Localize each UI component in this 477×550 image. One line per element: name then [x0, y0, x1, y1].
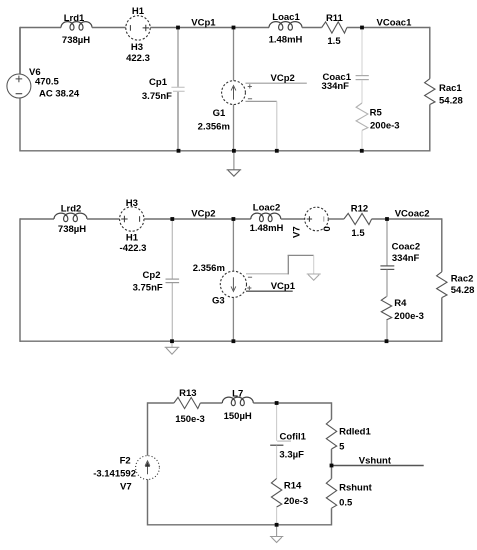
svg-text:Lrd2: Lrd2 — [61, 204, 82, 215]
voltage source V6 470.5 AC 38.24 — [7, 28, 80, 100]
svg-text:200e-3: 200e-3 — [370, 121, 400, 132]
inductor Lrd2 — [54, 204, 87, 235]
node VCoac2 label — [395, 209, 430, 220]
resistor R14 20e-3 — [271, 479, 308, 525]
svg-text:Vshunt: Vshunt — [359, 456, 392, 467]
ground below G1 — [227, 151, 242, 176]
svg-text:1.48mH: 1.48mH — [269, 35, 303, 46]
svg-text:Lrd1: Lrd1 — [64, 13, 85, 24]
svg-text:H1: H1 — [126, 233, 139, 244]
resistor R12 — [344, 203, 372, 239]
svg-text:334nF: 334nF — [322, 81, 350, 92]
voltage source V7 0 — [292, 207, 334, 238]
svg-text:VCp1: VCp1 — [271, 281, 296, 292]
svg-text:422.3: 422.3 — [126, 53, 150, 64]
controlled source H1 (CCVS, gain H3 422.3) — [126, 6, 150, 64]
inductor Loac2 — [250, 203, 284, 235]
wire right edge down to Rac2 — [441, 218, 443, 271]
svg-text:Cp2: Cp2 — [143, 270, 161, 281]
capacitor Cp2 3.75nF branch — [133, 219, 180, 341]
resistor R11 — [322, 13, 347, 47]
wire Rshunt to bottom-right corner — [331, 508, 333, 525]
wire V6 to bottom-left corner — [19, 98, 21, 151]
controlled source H3 (gain H1 -422.3) — [120, 198, 147, 254]
svg-text:Rshunt: Rshunt — [339, 483, 373, 494]
wire top-left corner — [20, 27, 61, 74]
svg-text:-3.141592: -3.141592 — [93, 468, 136, 479]
svg-text:VCoac2: VCoac2 — [395, 209, 430, 220]
inductor L7 — [222, 388, 253, 422]
wire R13 to L7 — [200, 402, 222, 404]
resistor R13 — [174, 388, 205, 425]
wire Lrd2 to H3 — [87, 218, 120, 220]
junction dots bottom circuit — [275, 401, 334, 527]
svg-text:G3: G3 — [212, 295, 225, 306]
svg-text:Loac2: Loac2 — [253, 203, 280, 214]
svg-text:54.28: 54.28 — [451, 285, 475, 296]
svg-text:3.75nF: 3.75nF — [133, 283, 163, 294]
svg-text:200e-3: 200e-3 — [394, 311, 424, 322]
svg-text:Cp1: Cp1 — [149, 77, 168, 88]
svg-text:5: 5 — [339, 442, 345, 453]
wire Rac2 to bottom wire — [441, 298, 443, 342]
svg-text:2.356m: 2.356m — [193, 263, 225, 274]
resistor Rac2 54.28 — [437, 272, 475, 298]
junction dots middle circuit — [170, 217, 389, 343]
svg-text:0: 0 — [322, 226, 333, 231]
inductor Loac1 — [269, 12, 303, 46]
G1 control + wire, node VCp2 — [246, 73, 307, 88]
svg-text:1.5: 1.5 — [327, 36, 341, 47]
svg-text:-422.3: -422.3 — [120, 243, 147, 254]
G3 control - wire up to floating ground — [246, 255, 314, 277]
svg-text:Cofil1: Cofil1 — [280, 431, 307, 442]
resistor Rac1 54.28 — [425, 79, 463, 107]
svg-text:VCp1: VCp1 — [191, 17, 216, 28]
resistor Rdled1 5 — [326, 419, 371, 452]
svg-text:AC 38.24: AC 38.24 — [39, 88, 80, 99]
wire Loac1 to R11 — [302, 27, 322, 29]
svg-text:H1: H1 — [132, 6, 145, 17]
svg-text:H3: H3 — [126, 198, 138, 209]
svg-text:Rac1: Rac1 — [439, 83, 462, 94]
wire L7 to node and right corner — [253, 402, 331, 404]
svg-text:F2: F2 — [120, 455, 131, 466]
current source F2 -3.141592 V7 — [93, 455, 159, 525]
wire R11 to right corner, node VCoac1 — [347, 27, 430, 29]
capacitor Cp1 3.75nF branch — [142, 28, 185, 151]
bottom wire of bottom circuit — [148, 524, 332, 526]
svg-text:Coac2: Coac2 — [392, 242, 421, 253]
wire V7 to R12 — [328, 218, 344, 220]
node VCoac1 label — [377, 17, 413, 28]
ground below bottom circuit — [270, 525, 284, 543]
svg-text:Rdled1: Rdled1 — [339, 427, 371, 438]
bottom wire of top circuit — [20, 150, 430, 152]
svg-text:H3: H3 — [131, 42, 143, 53]
svg-text:3.3µF: 3.3µF — [279, 449, 304, 460]
controlled source G3 branch (VCCS 2.356m) — [193, 219, 247, 341]
svg-text:V7: V7 — [120, 482, 132, 493]
inductor Lrd1 — [61, 13, 92, 46]
ground below Cp2 — [165, 341, 180, 354]
svg-text:R12: R12 — [351, 203, 368, 214]
capacitor Coac2 334nF + resistor R4 branch — [380, 219, 423, 341]
floating ground symbol (G3 - reference) — [307, 274, 321, 280]
G3 control + wire, node VCp1 — [246, 281, 296, 292]
svg-text:VCp2: VCp2 — [191, 209, 215, 220]
svg-text:2.356m: 2.356m — [198, 121, 230, 132]
svg-text:3.75nF: 3.75nF — [142, 91, 172, 102]
capacitor Cofil1 3.3µF branch — [270, 403, 306, 479]
svg-text:G1: G1 — [213, 108, 226, 119]
bottom wire of middle circuit — [20, 340, 442, 342]
svg-text:0.5: 0.5 — [339, 498, 353, 509]
svg-text:334nF: 334nF — [392, 253, 420, 264]
wire R12 to node VCoac2 and right corner — [372, 218, 442, 220]
svg-text:R5: R5 — [370, 107, 383, 118]
svg-text:V7: V7 — [292, 226, 303, 238]
svg-text:1.5: 1.5 — [351, 228, 365, 239]
svg-text:150e-3: 150e-3 — [175, 414, 205, 425]
svg-text:R13: R13 — [179, 388, 196, 399]
node VCp1 label — [191, 17, 216, 28]
node VCp2 label — [191, 209, 215, 220]
svg-text:VCoac1: VCoac1 — [377, 17, 413, 28]
svg-text:150µH: 150µH — [224, 411, 252, 422]
svg-text:R14: R14 — [284, 481, 302, 492]
svg-text:R11: R11 — [326, 13, 344, 24]
svg-text:L7: L7 — [232, 388, 243, 399]
svg-text:R4: R4 — [394, 298, 407, 309]
svg-text:20e-3: 20e-3 — [284, 496, 308, 507]
svg-text:Loac1: Loac1 — [272, 12, 300, 23]
svg-text:Rac2: Rac2 — [451, 273, 474, 284]
resistor Rshunt 0.5 — [326, 479, 372, 509]
wire right edge down to Rdled1 — [331, 402, 333, 419]
svg-text:1.48mH: 1.48mH — [250, 223, 284, 234]
capacitor Coac1 334nF + resistor R5 branch — [322, 28, 400, 151]
G1 control - wire to ground rail — [246, 99, 277, 151]
node Vshunt wire + label — [332, 456, 424, 467]
wire Rdled1 to node Vshunt — [331, 449, 333, 479]
svg-text:738µH: 738µH — [58, 224, 86, 235]
wire middle top-left corner — [20, 218, 54, 342]
wire bottom-circuit top-left corner — [148, 402, 174, 456]
svg-text:54.28: 54.28 — [439, 95, 463, 106]
controlled source G1 branch (VCCS 2.356m) — [198, 28, 246, 151]
wire H1 to node VCp1 and on to Loac1 — [150, 27, 269, 29]
wire Loac2 to V7 — [281, 218, 305, 220]
svg-text:470.5: 470.5 — [35, 77, 59, 88]
svg-text:738µH: 738µH — [62, 35, 90, 46]
svg-text:VCp2: VCp2 — [271, 73, 295, 84]
wire right edge down to Rac1 — [429, 27, 431, 79]
wire Lrd1 to H1 — [92, 27, 126, 29]
junction dots top circuit — [176, 26, 364, 153]
wire Rac1 to bottom wire — [429, 105, 431, 152]
wire H3 to node VCp2 and Loac2 — [144, 218, 251, 220]
